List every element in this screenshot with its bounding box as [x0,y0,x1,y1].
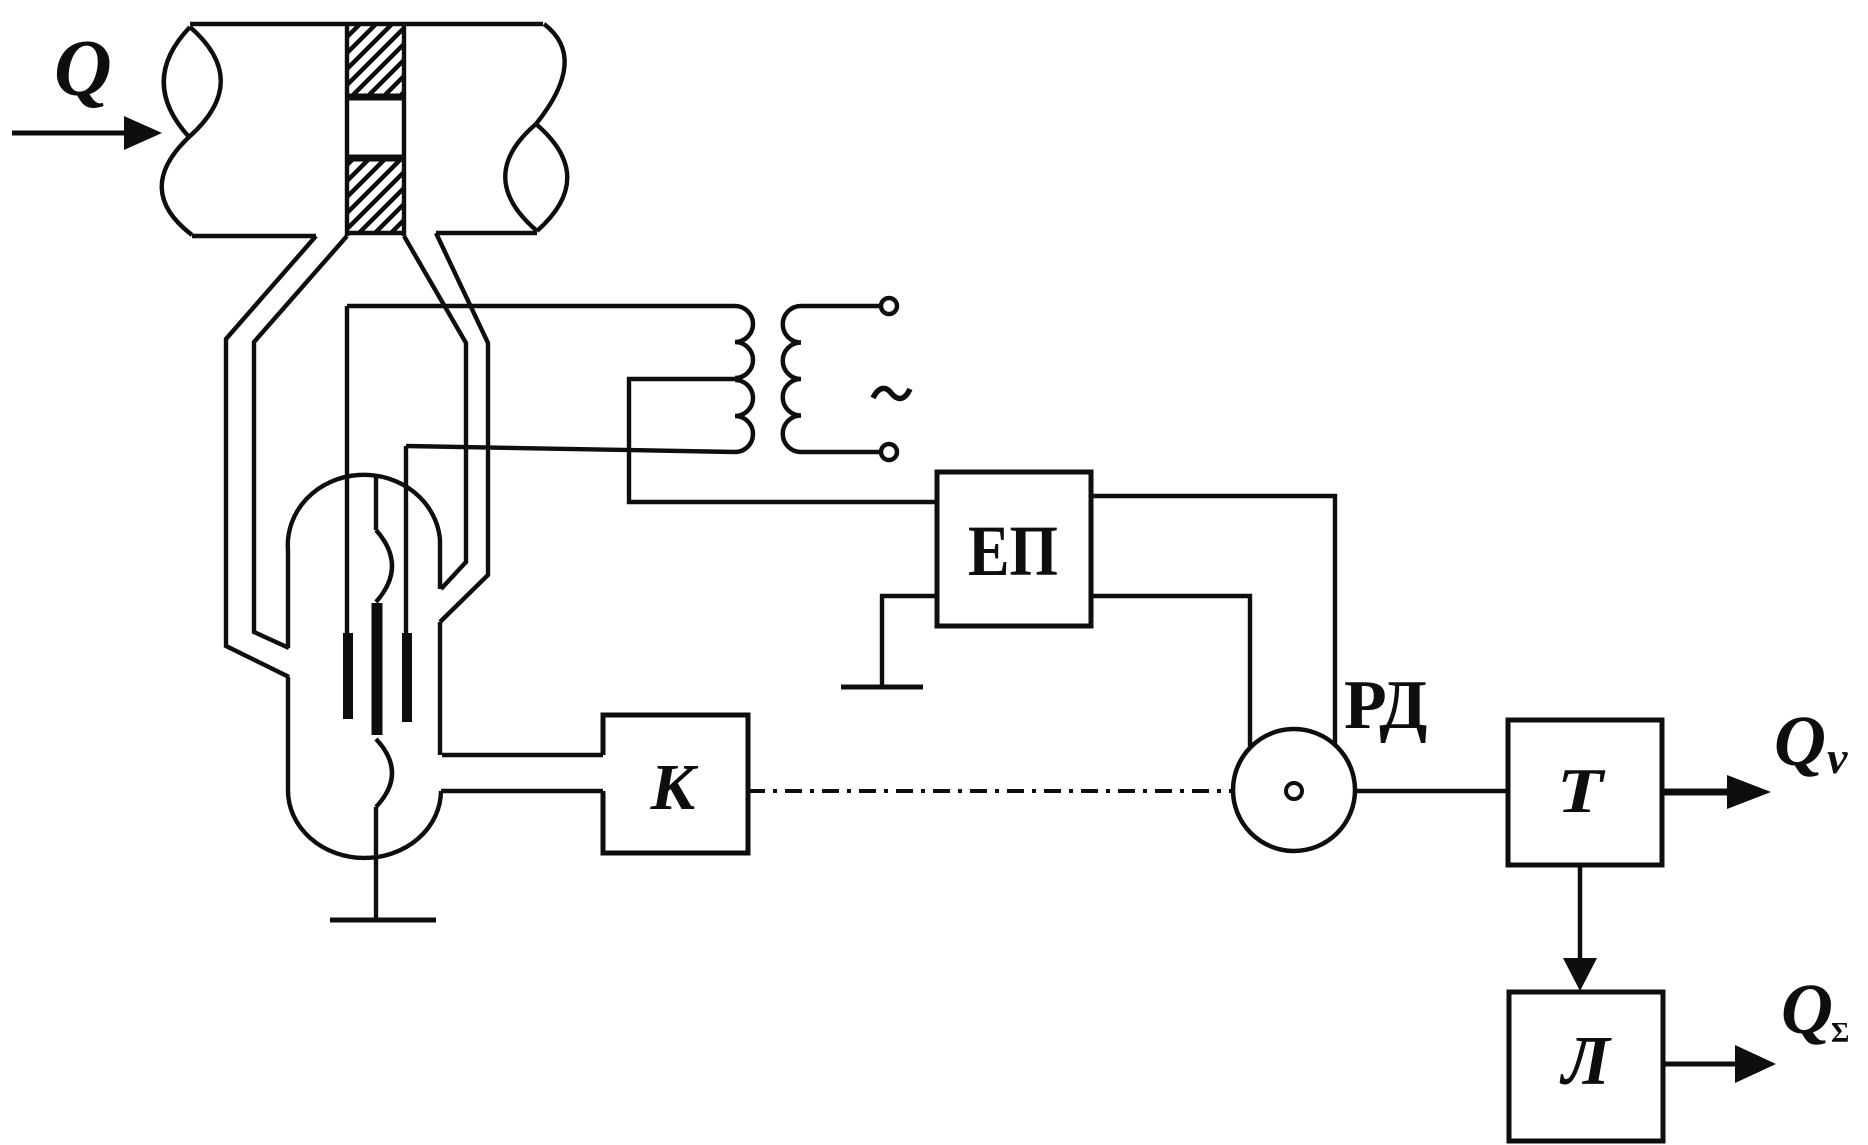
transformer secondary winding [783,306,801,452]
right electrode wire [404,446,408,635]
wire left electrode to transformer [347,304,735,308]
pipe top wall [190,22,543,26]
central tube lower line [374,807,378,920]
pipe right broken-end lens [505,124,567,231]
svg-text:Q: Q [1781,969,1833,1049]
central tube upper line [374,477,378,530]
central electrode [372,603,383,735]
arrow T output [1662,789,1729,796]
arrow L output [1663,1062,1738,1067]
svg-text:Л: Л [1559,1023,1612,1100]
wire secondary upper terminal [801,304,881,308]
wire RD to T [1355,789,1508,793]
vessel right wall upper [438,540,442,589]
orifice right wall [402,24,406,236]
dash-dot link K to RD [748,789,1233,793]
orifice upper hatched block [349,24,402,96]
block K [603,715,748,853]
svg-text:v: v [1827,732,1848,783]
pipe right upper bulge [536,24,565,124]
pipe bottom wall right segment [436,231,537,235]
transformer primary winding upper [735,306,753,378]
outlet tube bottom wall [441,789,603,793]
orifice lower hatched block [349,159,402,231]
svg-text:Т: Т [1557,755,1606,826]
wire EP ground stub [882,596,937,687]
left channel outer wall [226,236,316,677]
motor RD hub [1286,783,1302,799]
vessel dome [288,475,440,550]
svg-text:ЕП: ЕП [968,511,1058,591]
pipe bottom wall left segment [192,234,316,238]
wire transformer centre tap [629,379,937,502]
transformer primary winding lower [735,380,753,452]
left channel inner wall [254,236,347,648]
svg-text:Q: Q [1774,701,1826,781]
arrow into L [1563,958,1597,991]
svg-text:Σ: Σ [1831,1018,1849,1049]
central tube lower bubble [376,739,392,807]
ground under EP [841,685,923,690]
pipe left broken-end lens [164,27,221,137]
arrow Q inflow [12,131,126,136]
AC source symbol [873,388,910,398]
block EP [937,472,1091,626]
svg-text:Q: Q [54,25,112,113]
outlet tube top wall [442,753,603,757]
vessel left wall upper [286,550,290,648]
svg-text:К: К [650,751,699,824]
wire EP to RD right lower [1091,596,1250,747]
terminal lower [881,444,897,460]
vessel right wall middle [438,622,442,755]
wire EP to RD right upper [1091,496,1335,746]
right channel outer wall [436,233,488,622]
svg-text:РД: РД [1344,667,1427,744]
right channel inner wall [404,236,466,589]
ground under vessel [330,918,436,923]
block T [1508,720,1662,865]
terminal upper [881,298,897,314]
pipe left lower bulge [162,137,192,235]
orifice left wall [345,24,349,236]
motor RD [1233,729,1355,851]
right electrode [402,633,412,722]
vessel bottom arc [288,790,441,858]
central tube upper bubble [376,530,392,602]
wire right electrode to transformer [406,446,735,452]
wire secondary lower terminal [801,450,880,454]
left electrode [343,633,353,719]
vessel left wall lower [286,677,290,790]
block L [1509,992,1663,1141]
wire T to L [1578,865,1583,960]
left electrode wire [345,306,349,635]
